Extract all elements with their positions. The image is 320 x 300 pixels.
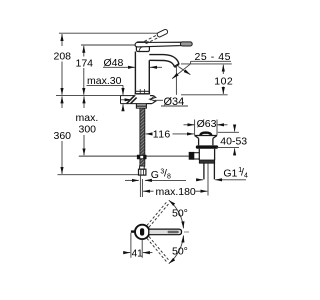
svg-text:116: 116 [153,129,171,141]
dimension max.300 [83,96,85,155]
svg-text:208: 208 [54,51,72,63]
swivel arc with arrows [184,231,189,233]
svg-text:max.180: max.180 [156,186,196,198]
lever raised (dashed phantom) [144,34,160,44]
svg-text:G1: G1 [223,168,237,180]
G3/8 fitting nut [140,166,145,169]
svg-text:50°: 50° [172,208,188,220]
pop-up side port and rod nut [192,153,200,159]
hose clip junction [137,155,147,160]
svg-text:174: 174 [76,57,94,69]
svg-text:Ø63: Ø63 [197,118,217,130]
wire deck reference line right [181,94,228,96]
lever paddle tip (side view) [180,42,192,46]
dimension 174 [81,44,136,46]
wire extension line top (208 ref at lever top) [59,32,162,34]
wire extension line 360 bottom [58,174,139,176]
svg-text:50°: 50° [172,246,188,258]
svg-text:41: 41 [132,248,144,259]
spout [149,55,179,68]
pop-up waste plug cap [199,132,212,136]
node tailpipe centerline extension [207,163,209,195]
svg-text:max.: max. [76,112,99,124]
dimension diameter 34 (deck hole) [155,99,163,101]
faucet body column [135,52,151,94]
svg-text:40-53: 40-53 [220,136,247,148]
node spout outlet extension line [175,65,177,95]
node supply pipes inside body [139,89,141,94]
deck / countertop cross-section left [56,95,121,97]
water jet direction arrows [172,64,190,78]
dimension 116 [146,133,194,135]
mounting nut under deck [136,104,146,108]
dimension max.180 [143,190,207,192]
svg-text:102: 102 [214,75,233,87]
deck cross-section right with break [150,96,155,104]
svg-text:360: 360 [54,130,72,142]
lever top view (solid) [149,229,182,235]
back tab [131,230,136,232]
svg-text:4: 4 [244,172,248,179]
node hose end extension lines [139,175,141,197]
cartridge housing [136,42,149,52]
wire pop-up rod / max.300 extension line [79,155,189,157]
dimension 102 [222,65,224,94]
pop-up waste O-ring seal [196,145,218,148]
dimension 40-53 [217,125,240,156]
cartridge slot [140,228,144,235]
pop-up bottom compression nut [199,160,214,163]
pop-up waste body [199,149,214,160]
pop-up waste flange [195,136,217,146]
lever phantom +50 deg (dashed) [147,201,170,227]
dimension 41 [125,233,152,258]
svg-text:300: 300 [79,123,97,135]
svg-text:G: G [151,169,159,181]
dimension 360 [61,96,63,173]
flexible supply hoses (braided band) [140,108,145,166]
dimension 208 [61,34,63,95]
lever L1 lowered (solid) [135,42,181,47]
lever phantom -50 deg (dashed) [147,237,170,263]
pop-up tailpipe G1 1/4 [204,163,215,179]
svg-text:8: 8 [167,174,171,181]
handle circle (body top view) [135,225,149,239]
dimension diameter 34 left leader [121,99,132,101]
lever raised paddle outline [156,29,168,38]
